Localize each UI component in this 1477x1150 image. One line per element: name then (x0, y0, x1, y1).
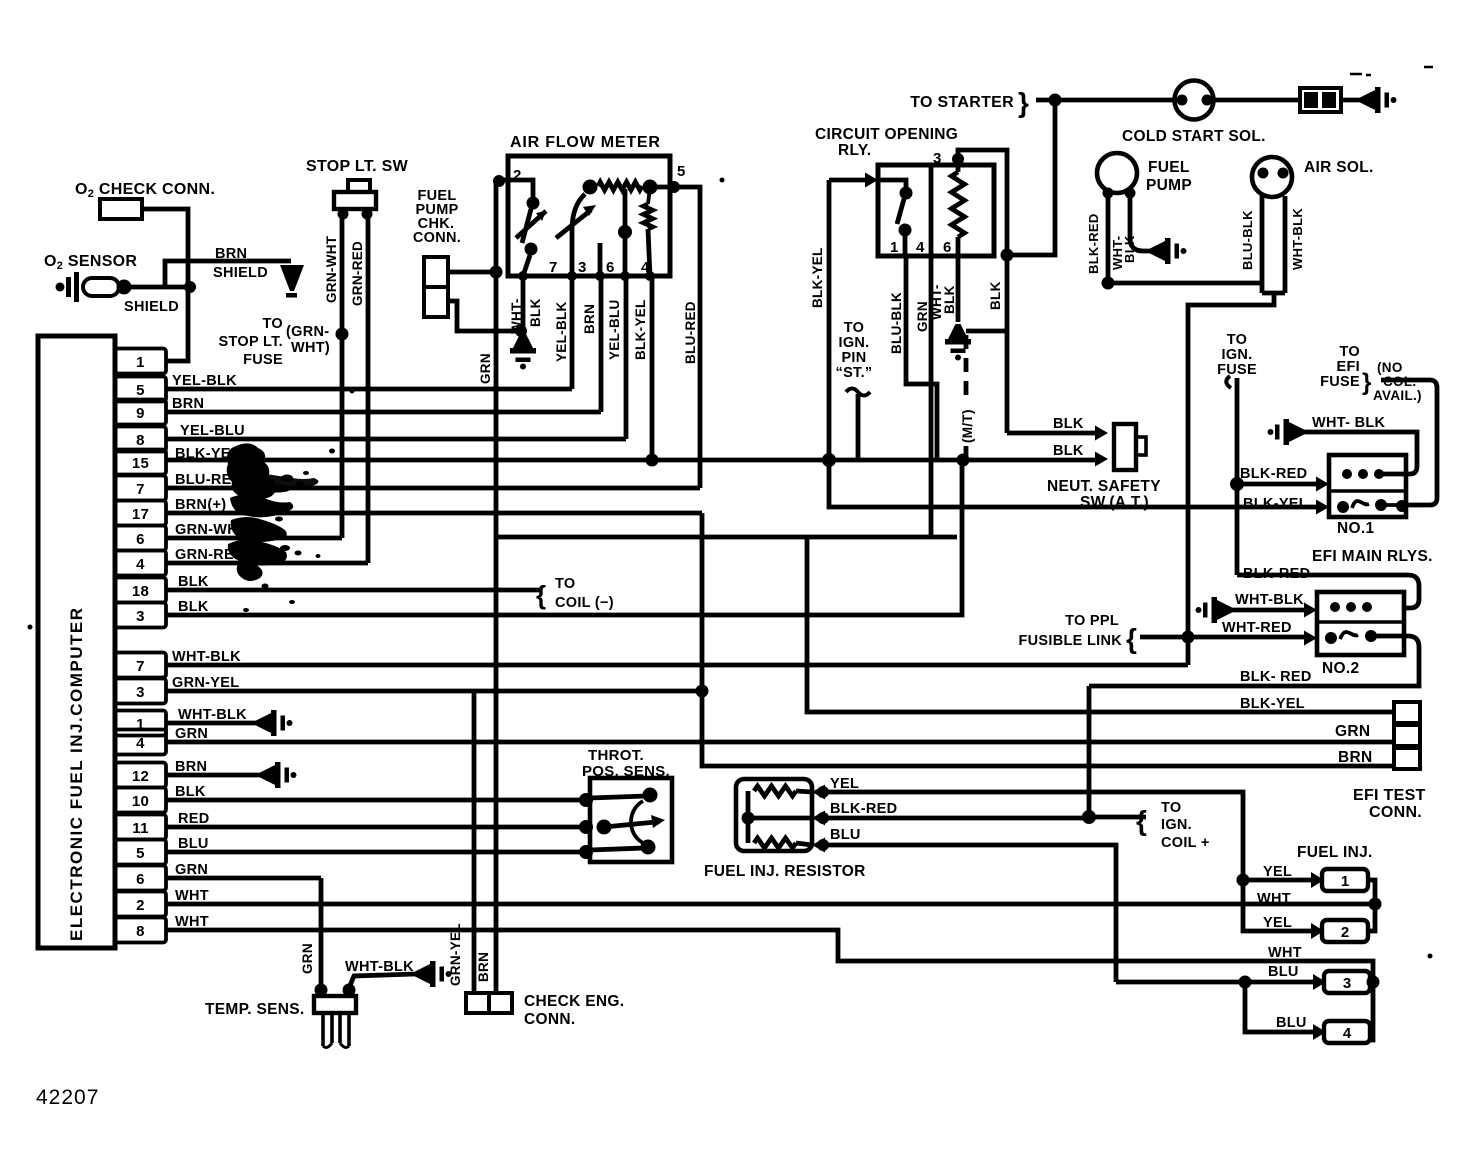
wire BLU-BLK: fuel pump to air sol node (1108, 281, 1262, 286)
EFI test connector (1394, 702, 1420, 723)
junction BLK-RED / ign coil+ (1082, 810, 1096, 824)
svg-text:BLK-RED: BLK-RED (1240, 466, 1307, 482)
TPS internal contacts (579, 793, 593, 807)
fuel pump check connector upper (424, 257, 448, 287)
svg-text:IGN.: IGN. (1221, 347, 1252, 363)
svg-text:BLK-RED: BLK-RED (830, 801, 897, 817)
svg-text:GRN-WHT: GRN-WHT (324, 235, 339, 303)
AFM pin5 edge dot (668, 181, 680, 193)
svg-text:AIR FLOW METER: AIR FLOW METER (510, 134, 661, 151)
svg-text:BRN: BRN (1338, 749, 1372, 766)
ECU pin 12 terminal box (lower group) (115, 763, 166, 788)
svg-text:TO: TO (555, 576, 575, 592)
ECU pin 5 terminal box (upper group) (115, 377, 166, 402)
wire BLK: to neut safety sw upper (1007, 431, 1100, 436)
junction: tap to stop lt fuse (336, 328, 349, 341)
relay pin 4 internal lead (929, 165, 934, 256)
ECU pin 8 terminal box (upper group) (115, 427, 166, 452)
ECU pin 6 terminal box (upper group) (115, 526, 166, 551)
junction BLU injectors (1239, 976, 1252, 989)
junction M/T line / pin15 row (957, 454, 970, 467)
wire GRN: AFM pin 2 long vertical (494, 178, 499, 994)
svg-text:TEMP. SENS.: TEMP. SENS. (205, 1001, 305, 1018)
ECU pin 3 terminal box (upper group) (115, 603, 166, 628)
svg-text:BLK: BLK (1053, 443, 1084, 459)
fuel inj resistor box (736, 779, 812, 851)
AFM resistor right dot (643, 180, 658, 195)
wire BLU to injector 3 (1245, 980, 1315, 985)
wire YEL-BLK: AFM pin 7 down (570, 276, 575, 389)
svg-text:FUSIBLE LINK: FUSIBLE LINK (1019, 633, 1123, 649)
EFI main relay NO.1 (1329, 455, 1406, 517)
svg-text:BLK: BLK (988, 281, 1003, 310)
inline connector (cold start) (1300, 88, 1341, 112)
ground (NO.1 coil) (1268, 419, 1305, 445)
wire: connector to ground (1341, 98, 1360, 103)
svg-text:10: 10 (132, 793, 149, 810)
wire BLK: ECU pin 10 to TPS (166, 798, 590, 803)
svg-text:GRN: GRN (478, 353, 493, 384)
AFM pin2/GRN junction (493, 175, 505, 187)
svg-text:IGN.: IGN. (1161, 817, 1192, 833)
wire WHT: ECU pin 2 row to injectors 1/2 (166, 902, 1374, 907)
svg-text:YEL-BLU: YEL-BLU (607, 299, 622, 360)
wire GRN down to temp sensor (319, 878, 324, 988)
wire BLU-RED: AFM pin 5 down (656, 187, 700, 488)
svg-text:STOP LT. SW: STOP LT. SW (306, 158, 409, 175)
svg-text:GRN-RED: GRN-RED (350, 241, 365, 306)
svg-text:BLK-YEL: BLK-YEL (1240, 696, 1305, 712)
junction chk conn / GRN (490, 266, 503, 279)
wire GRN-YEL: down to check eng conn (472, 691, 477, 993)
squiggle (ign pin ST lead) (846, 389, 870, 396)
svg-text:TO: TO (844, 320, 864, 336)
wire BLK-YEL into relay (829, 178, 866, 183)
svg-text:RLY.: RLY. (838, 142, 871, 159)
neutral safety switch connector (1114, 424, 1136, 470)
svg-text:COIL (−): COIL (−) (555, 595, 614, 611)
wire WHT-BLK: NO.1 coil to ground (1304, 432, 1417, 474)
svg-text:{: { (1126, 623, 1137, 654)
junction ign fuse / BLK-RED (1230, 477, 1244, 491)
svg-text:BLU-BLK: BLU-BLK (1240, 210, 1255, 270)
svg-text:WHT-RED: WHT-RED (1222, 620, 1292, 636)
wire: junction to ign coil+ (1089, 815, 1146, 820)
svg-text:18: 18 (132, 583, 149, 600)
wire: air sol node down to pin7 row (1188, 293, 1274, 665)
svg-text:BRN: BRN (582, 304, 597, 334)
svg-text:CONN.: CONN. (1369, 804, 1422, 821)
ground (fuel pump) (1150, 238, 1187, 264)
wire: starter feed (1036, 98, 1176, 103)
svg-text:1: 1 (136, 354, 145, 371)
shield ground symbol (280, 265, 304, 291)
air flow meter box (508, 156, 670, 276)
svg-text:7: 7 (549, 259, 558, 276)
AFM switch lower lead (523, 255, 530, 276)
wire BLU: resistor to injectors 3/4 (823, 845, 1116, 982)
junction O2 sensor / check conn (184, 281, 196, 293)
wire: BRN shield branch (165, 261, 291, 287)
wire YEL to injector 2 (1243, 880, 1313, 931)
circuit opening relay box (878, 165, 994, 256)
dashed wire BLK (M/T) lower (964, 446, 969, 457)
svg-text:THROT.: THROT. (588, 747, 644, 764)
dashed wire BLK (M/T) upper (964, 333, 969, 395)
wire BLK-RED: fuel pump left leg (1106, 195, 1111, 283)
ECU pin 10 terminal box (lower group) (115, 788, 166, 813)
wire: ign pin ST to pin15 row (856, 394, 861, 460)
svg-text:COLD START SOL.: COLD START SOL. (1122, 128, 1266, 145)
check engine connector box 2 (489, 993, 512, 1013)
ECU pin 5 terminal box (lower group) (115, 840, 166, 865)
wire BLU-BLK: air sol left leg (1260, 196, 1265, 293)
wire: injector 1/2 common (1368, 880, 1375, 931)
wire YEL to injector 1 (1243, 878, 1313, 883)
EFI main relay NO.2 (1317, 592, 1404, 655)
svg-text:NO.2: NO.2 (1322, 660, 1359, 677)
ground (pin 1) (256, 710, 293, 736)
svg-text:5: 5 (136, 845, 145, 862)
connector entry (NO.2 coil) (1304, 603, 1317, 618)
svg-text:BLK- RED: BLK- RED (1240, 669, 1312, 685)
AFM bottom edge terminals (518, 271, 528, 281)
wire: ECU pin 8 row YEL-BLU (166, 437, 626, 442)
svg-text:{: { (536, 580, 546, 610)
ground (AFM WHT-BLK) (510, 333, 536, 370)
svg-text:BLK: BLK (1053, 416, 1084, 432)
AFM switch cross stroke (516, 211, 546, 238)
ground (NO.2 coil) (1196, 597, 1233, 623)
svg-text:GRN: GRN (1335, 723, 1370, 740)
wire: ECU pin 7 row BLU-RED (166, 486, 700, 491)
connector entry (NO.2 switch) (1304, 631, 1317, 646)
resistor lower element (754, 838, 796, 848)
air solenoid (1252, 157, 1292, 197)
svg-text:17: 17 (132, 506, 149, 523)
AFM contact dot lower (525, 243, 538, 256)
stop light switch connector (348, 180, 370, 192)
AFM top resistor (598, 182, 642, 190)
connector entry (neut safety upper) (1095, 426, 1108, 441)
AFM pin6 contact dot (618, 225, 632, 239)
ECU pin 15 terminal box (upper group) (115, 450, 166, 475)
svg-text:BRN: BRN (476, 952, 491, 982)
AFM right resistor (644, 204, 653, 229)
relay internal switch (878, 180, 906, 190)
svg-text:15: 15 (132, 455, 149, 472)
svg-text:NEUT. SAFETY: NEUT. SAFETY (1047, 478, 1161, 495)
AFM pin2 internal lead (496, 180, 533, 198)
svg-text:FUEL INJ. RESISTOR: FUEL INJ. RESISTOR (704, 863, 866, 880)
wire GRN-YEL: ECU pin 3 row (166, 689, 702, 694)
svg-text:BLU-BLK: BLU-BLK (889, 292, 904, 354)
svg-text:SHIELD: SHIELD (213, 265, 268, 281)
svg-text:AVAIL.): AVAIL.) (1373, 388, 1422, 403)
svg-text:WHT-BLK: WHT-BLK (345, 959, 414, 975)
wire BLU feed (1116, 980, 1245, 985)
wire: O2 check conn to ECU pin 1 (142, 209, 188, 361)
svg-text:PUMP: PUMP (1146, 177, 1192, 194)
wire BLK-RED: resistor row (823, 816, 1089, 821)
ign fuse hook (1226, 376, 1231, 388)
svg-text:IGN.: IGN. (838, 335, 869, 351)
svg-text:3: 3 (1343, 975, 1351, 992)
svg-text:BLU: BLU (1276, 1015, 1307, 1031)
svg-text:6: 6 (136, 531, 145, 548)
svg-text:EFI TEST: EFI TEST (1353, 787, 1426, 804)
svg-text:BLK-YEL: BLK-YEL (1243, 496, 1308, 512)
svg-text:3: 3 (136, 608, 145, 625)
svg-text:}: } (1362, 369, 1371, 396)
svg-text:CONN.: CONN. (524, 1011, 575, 1028)
wire BLK-YEL: AFM pin 4 down (650, 276, 655, 460)
ECU pin 7 terminal box (lower group) (115, 653, 166, 678)
svg-text:COIL +: COIL + (1161, 835, 1210, 851)
wire: chk conn to GRN (448, 270, 493, 275)
wire GRN: ECU pin 6 row (166, 876, 321, 881)
svg-text:2: 2 (1341, 924, 1349, 941)
svg-text:BLK: BLK (528, 298, 543, 327)
junction chk conn / WHT-BLK (515, 325, 527, 337)
connector entry (relay BLK-YEL) (865, 173, 878, 188)
ground (temp sensor) (415, 961, 452, 987)
check engine connector box 1 (466, 993, 489, 1013)
svg-text:1: 1 (890, 239, 899, 256)
wire GRN-RED: stop lt sw to ECU pin 4 (366, 214, 371, 563)
wire: relay pin 3 to starter junction (958, 150, 1007, 255)
wire GRN: AFM to circuit opening relay (497, 535, 957, 540)
svg-text:3: 3 (933, 150, 942, 167)
svg-text:SHIELD: SHIELD (124, 299, 179, 315)
svg-text:WHT): WHT) (291, 340, 330, 356)
resistor common lead (746, 791, 751, 843)
svg-text:BLK: BLK (1122, 235, 1137, 263)
svg-text:BRN: BRN (215, 246, 247, 262)
wire WHT: ECU pin 8 row to injectors 3/4 (166, 930, 1373, 1040)
svg-text:BLU: BLU (830, 827, 861, 843)
svg-text:1: 1 (1341, 873, 1349, 890)
svg-text:YEL-BLK: YEL-BLK (554, 301, 569, 362)
ground (relay pin 6) (945, 324, 971, 361)
fuel pump (1097, 153, 1137, 193)
wire: O2 sensor output (131, 285, 188, 290)
wire: ECU pin 5 row YEL-BLK (166, 387, 572, 392)
connector entry (neut safety lower) (1095, 452, 1108, 467)
svg-text:6: 6 (943, 239, 952, 256)
svg-text:YEL: YEL (1263, 915, 1292, 931)
svg-text:6: 6 (606, 259, 615, 276)
svg-text:WHT-BLK: WHT-BLK (1235, 592, 1304, 608)
wire BLK-YEL/BLK: ECU pin 15 row to neut safety sw (166, 458, 1100, 463)
svg-text:FUSE: FUSE (1320, 374, 1360, 390)
ECU pin 4 terminal box (upper group) (115, 551, 166, 576)
svg-text:PIN: PIN (841, 350, 866, 366)
svg-text:SW.(A.T.): SW.(A.T.) (1080, 494, 1149, 511)
ground (pin 12) (260, 762, 297, 788)
svg-text:8: 8 (136, 923, 145, 940)
junction fusible link row (1182, 631, 1195, 644)
cold start solenoid (1175, 81, 1214, 120)
svg-text:FUSE: FUSE (1217, 362, 1257, 378)
wire BRN: ECU pin 12 to ground (166, 773, 260, 778)
throttle position sensor box (590, 778, 672, 862)
ECU pin 4 terminal box (lower group) (115, 730, 166, 755)
resistor upper element (754, 786, 796, 796)
svg-text:3: 3 (136, 684, 145, 701)
svg-text:8: 8 (136, 432, 145, 449)
AFM pin3 internal lead (598, 243, 603, 276)
svg-text:WHT- BLK: WHT- BLK (1312, 415, 1386, 431)
wire WHT-BLK to NO.2 coil (1232, 608, 1304, 613)
svg-text:BLK-YEL: BLK-YEL (633, 299, 648, 360)
fuel injector 3 (1313, 974, 1326, 990)
svg-text:O2 CHECK CONN.: O2 CHECK CONN. (75, 181, 215, 200)
wire BLU: ECU pin 5 to TPS (166, 850, 590, 855)
svg-text:4: 4 (1343, 1025, 1352, 1042)
AFM pin6 internal lead (623, 189, 628, 276)
wire BRN: AFM pin 3 down (599, 276, 604, 412)
svg-text:4: 4 (136, 735, 145, 752)
wire WHT-BLK: ECU pin 1 to ground (166, 721, 256, 726)
connector entry (NO.1 switch) (1316, 500, 1329, 515)
ECU pin 9 terminal box (upper group) (115, 400, 166, 425)
wire GRN: ECU pin 4 row to EFI test conn (166, 740, 1394, 745)
svg-text:GRN: GRN (300, 943, 315, 974)
wire: ECU pin 9 row BRN (166, 410, 601, 415)
junction GRN-YEL row end (696, 685, 709, 698)
wire GRN-WHT: stop lt sw to ECU pin 6 (340, 214, 345, 538)
ECU pin 7 terminal box (upper group) (115, 476, 166, 501)
temp sensor symbol (315, 984, 328, 997)
AFM contact dot upper (527, 197, 540, 210)
svg-text:TO STARTER: TO STARTER (910, 94, 1014, 111)
wire BRN(+): ECU pin 17 row (166, 511, 702, 516)
AFM switch blade 1 (522, 209, 531, 243)
wire: pin17 row down and right to EFI test conn BRN (702, 513, 1394, 766)
svg-text:7: 7 (136, 658, 145, 675)
svg-text:}: } (1018, 87, 1029, 118)
wire BLK-YEL: relay to EFI main relay NO.1 (829, 180, 1322, 507)
O2 check connector (100, 199, 142, 219)
svg-text:AIR SOL.: AIR SOL. (1304, 159, 1374, 176)
svg-text:TO: TO (1340, 344, 1360, 360)
svg-text:BLK-RED: BLK-RED (1086, 213, 1101, 274)
svg-text:BLK-RED: BLK-RED (1243, 566, 1310, 582)
wire BLK: ECU pin 18 row to coil- (166, 588, 540, 593)
svg-text:11: 11 (132, 820, 148, 837)
svg-text:EFI MAIN RLYS.: EFI MAIN RLYS. (1312, 548, 1433, 565)
wire: air sol legs node (1262, 291, 1285, 296)
fuel injector 1 (1311, 872, 1324, 888)
svg-text:4: 4 (916, 239, 925, 256)
svg-text:3: 3 (578, 259, 587, 276)
fuel injector 2 (1311, 923, 1324, 939)
relay pin 3 junction dot (952, 153, 964, 165)
wire YEL: resistor to injectors (823, 792, 1243, 880)
wire WHT-BLK: relay pin 6 to ground (956, 256, 961, 322)
junction starter/BLK (1001, 249, 1014, 262)
NO.1 switch blade (1352, 501, 1369, 508)
svg-text:CHECK ENG.: CHECK ENG. (524, 993, 624, 1010)
stray scan marks (1350, 67, 1433, 75)
ECU pin 17 terminal box (upper group) (115, 501, 166, 526)
svg-text:ELECTRONIC FUEL INJ.COMPUTER: ELECTRONIC FUEL INJ.COMPUTER (67, 607, 86, 941)
wire: ECU pin 6 row GRN-WHT (166, 536, 342, 541)
resistor common junction (742, 812, 755, 825)
wire: GRN branch down to EFI test conn BLK-YEL (807, 537, 1394, 712)
NO.2 switch blade (1340, 632, 1358, 639)
ECU pin 6 terminal box (lower group) (115, 866, 166, 891)
svg-text:TO: TO (263, 316, 283, 332)
AFM resistor left dot (583, 180, 598, 195)
AFM pin7 internal lead (572, 194, 585, 276)
svg-text:GRN: GRN (915, 301, 930, 332)
wire: ECU pin 4 row GRN-RED (166, 561, 368, 566)
svg-text:EFI: EFI (1337, 359, 1360, 375)
wire RED: ECU pin 11 to TPS (166, 825, 590, 830)
svg-text:TO: TO (1161, 800, 1181, 816)
AFM pin4 internal lead (648, 229, 650, 276)
ECU pin 8 terminal box (lower group) (115, 918, 166, 943)
ECU: electronic fuel injection computer box (38, 336, 115, 948)
svg-text:(NO: (NO (1377, 360, 1403, 375)
AFM potentiometer wiper blade (556, 210, 591, 238)
svg-text:(GRN-: (GRN- (286, 324, 329, 340)
wire BLK-RED: NO.2 switch out (1089, 636, 1419, 686)
wire YEL-BLU: AFM pin 6 down (624, 276, 629, 439)
ECU pin 18 terminal box (upper group) (115, 578, 166, 603)
ECU pin 1 terminal box (lower group) (115, 711, 166, 736)
junction injector 3 common (1367, 976, 1380, 989)
wire BLU-BLK: relay pin 1 down (906, 256, 937, 460)
wire: BLK-RED down to coil+ junction (1087, 686, 1092, 817)
ECU pin 2 terminal box (lower group) (115, 892, 166, 917)
wire: junction up to starter line (1007, 100, 1055, 255)
wire: ign fuse vertical (1235, 378, 1240, 575)
svg-text:6: 6 (136, 871, 145, 888)
ground (cold start) (1360, 87, 1397, 113)
svg-text:5: 5 (136, 382, 145, 399)
connector entry (NO.1 coil) (1316, 477, 1329, 492)
svg-text:FUSE: FUSE (243, 352, 283, 368)
svg-text:“ST.”: “ST.” (836, 365, 873, 381)
svg-text:2: 2 (136, 897, 145, 914)
wire WHT-BLK: air sol right leg (1283, 196, 1288, 293)
fuel injector 4 (1313, 1024, 1326, 1040)
wire GRN: relay pin 4 down to GRN row (929, 256, 934, 537)
svg-text:TO: TO (1227, 332, 1247, 348)
svg-text:CIRCUIT OPENING: CIRCUIT OPENING (815, 126, 958, 143)
svg-text:BLU-RED: BLU-RED (683, 301, 698, 364)
svg-text:NO.1: NO.1 (1337, 520, 1374, 537)
svg-text:BLK: BLK (942, 285, 957, 314)
svg-text:FUEL INJ.: FUEL INJ. (1297, 844, 1373, 861)
junction WHT injectors 1-2 (1369, 898, 1382, 911)
wire BLK-RED to NO.1 coil (1237, 482, 1316, 487)
junction AFM BLK-YEL / pin15 row (646, 454, 659, 467)
svg-text:4: 4 (136, 556, 145, 573)
svg-text:BLU: BLU (1268, 964, 1299, 980)
svg-text:BLK-YEL: BLK-YEL (810, 247, 825, 308)
wire WHT-BLK: ECU pin 7 row (166, 663, 1188, 668)
svg-text:STOP LT.: STOP LT. (219, 334, 283, 350)
ECU pin 11 terminal box (lower group) (115, 815, 166, 840)
svg-text:WHT: WHT (1268, 945, 1302, 961)
junction starter feed (1049, 94, 1062, 107)
wire WHT-BLK: fuel pump right leg to ground (1130, 195, 1150, 251)
junction YEL injectors (1237, 874, 1250, 887)
